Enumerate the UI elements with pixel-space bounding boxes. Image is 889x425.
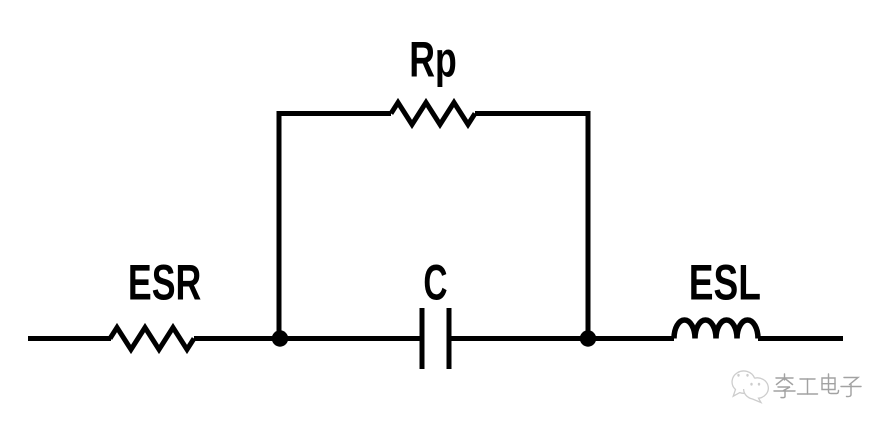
wire left lead bbox=[28, 336, 111, 341]
wire left branch of Rp loop bbox=[279, 114, 391, 339]
svg-text:ESL: ESL bbox=[689, 255, 761, 311]
inductor ESL bbox=[674, 320, 758, 338]
svg-text:ESR: ESR bbox=[128, 256, 201, 311]
watermark text character Zi bbox=[841, 378, 861, 397]
watermark text character Dian bbox=[822, 374, 839, 394]
wire from capacitor to node B bbox=[451, 336, 674, 341]
node B junction dot bbox=[580, 330, 596, 346]
label ESR bbox=[128, 256, 201, 311]
wire from ESR to node A bbox=[194, 336, 420, 341]
capacitor C right plate bbox=[447, 308, 452, 369]
label C bbox=[423, 255, 447, 311]
capacitor C left plate bbox=[420, 308, 425, 369]
watermark icon chat bubble large bbox=[732, 371, 756, 396]
resistor ESR bbox=[110, 328, 194, 350]
svg-text:C: C bbox=[423, 255, 447, 311]
label ESL bbox=[689, 255, 761, 311]
label Rp bbox=[409, 33, 457, 88]
node A junction dot bbox=[272, 330, 288, 346]
watermark text character Li bbox=[774, 374, 795, 398]
watermark text character Gong bbox=[798, 379, 818, 394]
resistor Rp bbox=[391, 103, 475, 125]
watermark icon chat bubble small bbox=[744, 378, 769, 403]
svg-text:Rp: Rp bbox=[409, 33, 457, 88]
wire right lead bbox=[758, 336, 843, 341]
wire right branch of Rp loop bbox=[475, 114, 588, 339]
